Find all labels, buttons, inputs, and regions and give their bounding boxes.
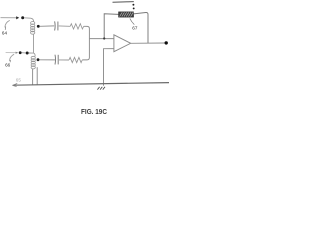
node C [19,51,22,54]
capacitor C1 [55,21,58,30]
wire C to D [22,52,26,54]
inductor coil1 (transformer winding) [31,22,35,35]
wire D to coil2 [29,53,35,56]
node E [37,58,40,61]
op-amp U1 [114,35,131,52]
svg-text:65: 65 [16,77,22,82]
wire A to coil1 [24,18,33,22]
wire C1 to R1 [59,25,70,27]
wire E to capacitor C2 [39,59,55,61]
node B [37,25,40,28]
resistor R2 [69,57,82,62]
wire tap to op-amp noninverting input [89,38,113,40]
potentiometer wiper line [113,1,134,4]
wire inverting input [104,49,114,86]
svg-text:66: 66 [5,63,11,68]
wire C2 to R2 [59,59,69,61]
wiper dotted connection [132,4,134,10]
svg-text:FIG. 19C: FIG. 19C [81,107,107,116]
node A [21,16,24,19]
resistor R3 (hatched box) [119,12,134,17]
switch 66 [6,52,19,61]
inductor coil2 (transformer winding) [31,56,35,69]
switch 64 [1,16,20,27]
ground bus [12,83,169,87]
wire R1 corner down, vertical join, corner to R2 [82,26,89,60]
output wire [131,42,165,44]
wire coil1 bottom to switch line junction [33,34,35,53]
feedback wire left vertical [104,14,118,39]
feedback wire right side [134,12,149,43]
label 66 [5,60,11,68]
resistor R1 [70,24,84,29]
ground hatching [97,87,105,90]
label 67 [130,19,138,31]
capacitor C2 [55,55,58,65]
label 64 [2,27,8,36]
svg-text:64: 64 [2,31,8,36]
wire secondary terminal to ground bus [36,67,38,85]
output node [165,41,168,44]
wire coil2 bottom to ground bus [32,69,34,85]
svg-text:67: 67 [132,25,138,30]
wire B to capacitor C1 [40,25,54,27]
node D [26,52,29,55]
